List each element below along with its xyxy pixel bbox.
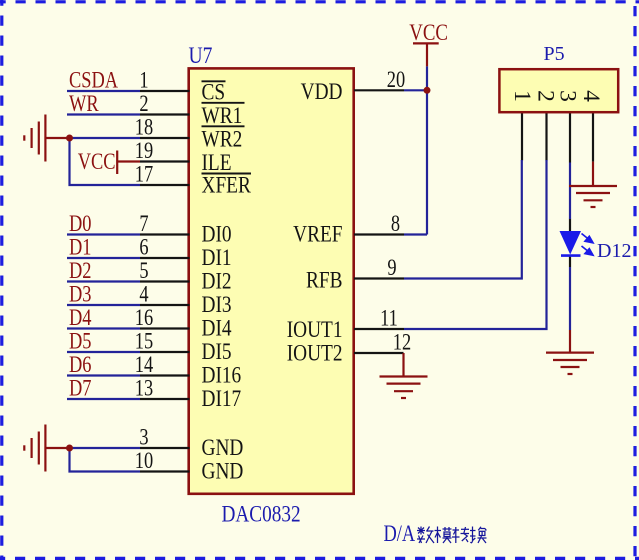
svg-text:IOUT1: IOUT1 — [287, 316, 343, 342]
VCC power port bar (top, feeds VDD/VREF) — [413, 42, 439, 44]
svg-text:DI5: DI5 — [202, 338, 232, 364]
svg-text:VCC: VCC — [409, 19, 448, 45]
earth ground symbol (bottom left, at GND pins) — [46, 447, 70, 449]
wire net D5 to pin 15 — [67, 351, 140, 353]
U7 pin 11 (IOUT1) lead — [354, 328, 404, 330]
overbar of WR1 — [202, 102, 245, 104]
wire pin 20 to VCC junction — [404, 89, 427, 91]
svg-text:DI3: DI3 — [202, 291, 232, 317]
U7 pin 17 (XFER) lead — [140, 184, 190, 186]
U7 pin 8 (VREF) lead — [354, 233, 404, 235]
U7 pin 3 (GND) lead — [140, 447, 190, 449]
P5 pin 2 lead — [545, 112, 547, 161]
svg-text:DI2: DI2 — [202, 268, 232, 294]
U7 pin 15 (DI5) lead — [140, 351, 190, 353]
wire net CSDA to pin 1 — [67, 90, 140, 92]
ground symbol under P5 pin 4 — [592, 162, 594, 186]
U7 pin 1 (CS) lead — [140, 90, 190, 92]
svg-text:VDD: VDD — [301, 78, 343, 104]
wire VCC junction down to VREF row — [426, 66, 428, 234]
svg-text:10: 10 — [135, 447, 153, 474]
svg-text:20: 20 — [387, 66, 405, 93]
wire P5 pin 3 to LED anode — [569, 163, 571, 220]
svg-text:U7: U7 — [189, 43, 213, 69]
wire net D2 to pin 5 — [67, 280, 140, 282]
U7 pin 18 (WR2) lead — [140, 137, 190, 139]
svg-text:17: 17 — [135, 161, 153, 188]
svg-text:VCC: VCC — [78, 148, 116, 175]
wire net D3 to pin 4 — [67, 304, 140, 306]
U7 pin 7 (DI0) lead — [140, 233, 190, 235]
sheet title character 数 — [417, 527, 434, 544]
svg-text:13: 13 — [135, 375, 153, 402]
LED D12 anode lead — [569, 219, 571, 232]
wire net D7 to pin 13 — [67, 398, 140, 400]
P5 pin 1 lead — [521, 112, 523, 161]
connector P5 body — [499, 69, 618, 112]
P5 pin 3 lead — [569, 112, 571, 163]
earth ground symbol (top left, at WR2/XFER) — [46, 137, 70, 139]
overbar of XFER — [202, 173, 252, 175]
U7 pin 13 (DI17) lead — [140, 398, 190, 400]
wire ground junction to pin 3 — [70, 447, 141, 449]
svg-text:D7: D7 — [69, 375, 91, 402]
U7 pin 6 (DI1) lead — [140, 257, 190, 259]
svg-text:4: 4 — [578, 90, 604, 102]
svg-text:DI16: DI16 — [202, 362, 242, 388]
overbar of WR2 — [202, 125, 245, 127]
wire ground junction to pin 18 — [70, 137, 141, 139]
U7 pin 12 (IOUT2) lead — [354, 352, 404, 354]
svg-text:D/A: D/A — [384, 520, 416, 547]
wire net D0 to pin 7 — [67, 233, 140, 235]
svg-text:XFER: XFER — [202, 172, 252, 198]
svg-text:D12: D12 — [597, 240, 631, 262]
LED D12 cathode lead — [569, 255, 571, 267]
wire LED cathode down to ground — [569, 267, 571, 330]
svg-text:CS: CS — [202, 79, 226, 105]
svg-text:11: 11 — [380, 305, 398, 332]
junction at pin 3 wire and earth ground — [66, 445, 73, 452]
svg-text:IOUT2: IOUT2 — [287, 340, 343, 366]
wire net D6 to pin 14 — [67, 374, 140, 376]
wire ground junction to pin 17 — [70, 138, 141, 185]
svg-text:GND: GND — [202, 434, 244, 460]
svg-text:WR: WR — [69, 90, 99, 117]
U7 pin 19 (ILE) lead — [140, 160, 190, 162]
svg-text:1: 1 — [509, 90, 535, 102]
U7 pin 16 (DI4) lead — [140, 327, 190, 329]
svg-text:GND: GND — [202, 458, 244, 484]
svg-text:8: 8 — [391, 210, 400, 237]
IC U7 body (DAC0832) — [189, 68, 354, 493]
svg-text:9: 9 — [387, 254, 396, 281]
sheet title character 模 — [435, 527, 452, 544]
ground symbol under LED D12 — [569, 330, 571, 353]
svg-text:DI0: DI0 — [202, 221, 232, 247]
U7 pin 14 (DI16) lead — [140, 374, 190, 376]
junction at VDD pin 20 and VCC net — [424, 87, 431, 94]
junction at pin 18 wire and earth ground — [66, 135, 73, 142]
U7 pin 5 (DI2) lead — [140, 280, 190, 282]
svg-text:DI4: DI4 — [202, 315, 232, 341]
wire ground junction to pin 10 — [70, 448, 141, 472]
U7 pin 20 (VDD) lead — [354, 89, 404, 91]
wire pin 9 RFB to P5 pin 1 — [404, 160, 522, 279]
svg-text:P5: P5 — [544, 43, 565, 65]
U7 pin 9 (RFB) lead — [354, 277, 404, 279]
LED D12 — [560, 231, 594, 256]
svg-text:3: 3 — [555, 90, 581, 102]
svg-text:WR2: WR2 — [202, 126, 243, 152]
sheet title character 转 — [452, 527, 469, 543]
U7 pin 10 (GND) lead — [140, 470, 190, 472]
sheet title character 换 — [470, 527, 487, 544]
U7 pin 2 (WR1) lead — [140, 113, 190, 115]
wire pin 8 to VCC vertical — [404, 233, 427, 235]
U7 pin 4 (DI3) lead — [140, 304, 190, 306]
svg-text:12: 12 — [393, 329, 411, 356]
svg-text:DI1: DI1 — [202, 244, 232, 270]
svg-text:DI17: DI17 — [202, 385, 242, 411]
svg-text:RFB: RFB — [306, 267, 342, 293]
wire pin 11 IOUT1 to P5 pin 2 — [404, 160, 547, 329]
VCC power port bar at pin 19 ILE — [116, 151, 118, 175]
wire net D4 to pin 16 — [67, 327, 140, 329]
svg-text:VREF: VREF — [293, 221, 343, 247]
wire net D1 to pin 6 — [67, 257, 140, 259]
ground symbol under pin 12 IOUT2 — [402, 353, 404, 377]
svg-text:WR1: WR1 — [202, 102, 243, 128]
overbar of CS — [202, 80, 226, 82]
P5 pin 4 lead — [592, 112, 594, 162]
svg-text:DAC0832: DAC0832 — [222, 501, 301, 527]
wire net WR to pin 2 — [67, 113, 140, 115]
